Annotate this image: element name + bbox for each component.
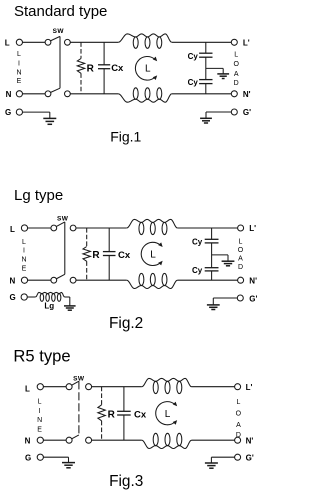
terminal G: [5, 108, 23, 117]
wire G' to ground: [206, 111, 231, 113]
svg-text:L: L: [25, 385, 30, 394]
svg-text:R: R: [87, 63, 95, 74]
wire SW to choke (N line, fig3): [92, 439, 142, 441]
svg-text:N': N': [246, 436, 254, 445]
wire Lg to ground (fig2): [64, 296, 69, 298]
wire choke to L' (fig3): [192, 386, 235, 388]
ground (G', fig2): [207, 298, 220, 310]
wire choke to L' (fig2): [177, 227, 237, 229]
svg-text:I: I: [39, 408, 41, 415]
svg-text:Cy: Cy: [188, 52, 199, 61]
wire G' to ground (fig2): [213, 297, 237, 299]
terminal L (fig3): [25, 384, 43, 394]
inductor Lg (fig2): [36, 292, 65, 310]
ground (G): [43, 112, 56, 124]
svg-text:Cx: Cx: [134, 409, 147, 420]
wire G to Lg (fig2): [27, 296, 35, 298]
svg-text:E: E: [17, 78, 22, 85]
svg-text:L': L': [249, 224, 256, 233]
choke L top winding (fig2): [127, 219, 178, 234]
capacitor Cy upper (fig2): [192, 228, 219, 268]
svg-text:D: D: [238, 264, 243, 271]
svg-text:N: N: [37, 417, 42, 424]
svg-text:L: L: [38, 399, 42, 406]
terminal L' (fig2): [238, 224, 257, 233]
svg-text:N: N: [21, 257, 26, 264]
resistor R (fig2): [83, 228, 100, 280]
svg-text:N': N': [249, 276, 257, 285]
net label LOAD: [233, 51, 239, 87]
svg-text:Cx: Cx: [118, 250, 131, 261]
svg-text:Cy: Cy: [192, 238, 203, 247]
wire choke to N' (fig3): [192, 439, 235, 441]
wire L terminal to SW (fig3): [43, 386, 66, 388]
wire N terminal to SW (fig3): [43, 439, 66, 441]
choke L top winding (fig3): [142, 378, 192, 393]
svg-text:G: G: [10, 293, 16, 302]
capacitor Cy lower: [188, 78, 213, 94]
terminal G': [231, 108, 251, 117]
wire N terminal to SW (fig2): [28, 279, 51, 281]
net label LOAD (fig3): [236, 399, 242, 439]
svg-text:Fig.2: Fig.2: [109, 315, 143, 332]
svg-text:L: L: [10, 225, 15, 234]
svg-text:D: D: [234, 80, 239, 87]
title: Lg type: [14, 187, 63, 204]
svg-text:O: O: [238, 247, 244, 254]
wire SW to choke (N line, fig2): [76, 279, 127, 281]
ground (G, fig2): [64, 297, 76, 310]
svg-text:O: O: [233, 61, 239, 68]
svg-text:N: N: [25, 437, 31, 446]
svg-text:G: G: [5, 108, 11, 117]
ground (G, fig3): [62, 457, 75, 468]
resistor R: [77, 42, 94, 94]
svg-text:Fig.3: Fig.3: [109, 473, 143, 490]
svg-text:L: L: [150, 250, 156, 261]
svg-text:Lg: Lg: [44, 302, 54, 311]
svg-text:L: L: [145, 63, 151, 74]
capacitor Cx (fig3): [117, 387, 147, 441]
ground (G'): [200, 112, 212, 123]
wire SW to choke (L line, fig3): [92, 386, 142, 388]
net label LINE: [16, 51, 21, 85]
net label LOAD (fig2): [238, 239, 244, 271]
wire SW to choke (N line): [70, 93, 118, 95]
wire G to ground: [23, 111, 50, 113]
choke flux arrow L (fig3): [156, 402, 177, 425]
svg-text:N: N: [10, 277, 16, 286]
choke L bottom winding: [118, 88, 172, 102]
terminal N' (fig2): [238, 276, 257, 285]
terminal G (fig3): [25, 454, 43, 463]
svg-text:E: E: [22, 266, 27, 273]
terminal N: [6, 90, 23, 99]
svg-text:G': G': [246, 454, 254, 463]
title: Standard type: [14, 3, 107, 20]
svg-text:N': N': [243, 90, 251, 99]
wire choke to N' (fig2): [177, 279, 237, 281]
resistor R (fig3): [98, 387, 116, 441]
svg-text:Lg type: Lg type: [14, 187, 63, 204]
wire choke to N': [172, 93, 232, 95]
terminal G (fig2): [10, 293, 28, 302]
wire SW to choke (L line, fig2): [76, 227, 127, 229]
svg-text:G: G: [25, 454, 31, 463]
svg-text:I: I: [23, 248, 25, 255]
choke L top winding: [118, 34, 172, 48]
svg-text:SW: SW: [53, 28, 65, 35]
wire Cy midpoint to ground (fig2): [212, 254, 228, 256]
svg-text:R: R: [92, 250, 100, 261]
wire G to ground (fig3): [43, 456, 68, 458]
svg-text:L: L: [234, 51, 238, 58]
svg-text:R5 type: R5 type: [13, 347, 70, 366]
svg-text:R: R: [108, 410, 116, 421]
svg-text:L: L: [165, 409, 171, 420]
capacitor Cx: [98, 42, 124, 94]
choke flux arrow L (fig2): [141, 242, 162, 265]
switch SW (fig2): [51, 216, 76, 283]
svg-text:E: E: [37, 426, 42, 433]
wire Cy midpoint to ground: [206, 67, 223, 69]
svg-text:O: O: [236, 411, 242, 418]
svg-text:N: N: [6, 90, 12, 99]
capacitor Cy lower (fig2): [192, 266, 219, 280]
choke flux arrow L: [135, 57, 157, 81]
terminal N (fig3): [25, 437, 44, 446]
wire G' to ground (fig3): [211, 456, 234, 458]
terminal L' (fig3): [235, 383, 253, 392]
svg-text:L: L: [239, 239, 243, 246]
wire SW to choke (L line): [70, 41, 118, 43]
ground (Cy midpoint, fig2): [222, 255, 235, 266]
svg-text:I: I: [18, 61, 20, 68]
wire choke to L': [172, 41, 232, 43]
capacitor Cx (fig2): [103, 228, 131, 280]
switch SW (fig3): [66, 376, 92, 444]
svg-text:G': G': [243, 108, 251, 117]
terminal L: [5, 38, 23, 47]
capacitor Cy upper: [188, 42, 213, 79]
choke L bottom winding (fig2): [127, 273, 178, 288]
svg-text:A: A: [234, 71, 239, 78]
switch SW: [45, 28, 70, 97]
wire L terminal to SW (fig2): [28, 227, 51, 229]
caption Fig.3: [109, 473, 143, 490]
title: R5 type: [13, 347, 70, 366]
svg-text:A: A: [238, 255, 243, 262]
terminal N': [231, 90, 250, 99]
wire N terminal to SW: [23, 93, 46, 95]
net label LINE (fig3): [37, 399, 42, 434]
svg-text:Standard type: Standard type: [14, 3, 107, 20]
ground (Cy midpoint): [217, 68, 229, 78]
svg-text:L': L': [243, 38, 250, 47]
svg-text:Cy: Cy: [192, 266, 203, 275]
svg-text:Fig.1: Fig.1: [110, 128, 141, 144]
terminal L (fig2): [10, 225, 28, 234]
terminal N' (fig3): [235, 436, 254, 445]
svg-text:L: L: [22, 239, 26, 246]
caption Fig.2: [109, 315, 143, 332]
svg-text:L: L: [236, 399, 240, 406]
terminal G' (fig3): [235, 454, 254, 463]
svg-text:G': G': [249, 294, 257, 303]
wire L terminal to SW: [23, 41, 46, 43]
ground (G', fig3): [205, 457, 218, 468]
net label LINE (fig2): [21, 239, 26, 272]
svg-text:L: L: [17, 51, 21, 58]
svg-text:Cy: Cy: [188, 78, 199, 87]
svg-text:L: L: [5, 38, 10, 47]
terminal L': [231, 38, 249, 47]
svg-text:A: A: [236, 422, 241, 429]
choke L bottom winding (fig3): [142, 433, 192, 448]
svg-text:SW: SW: [73, 376, 85, 383]
svg-text:SW: SW: [57, 216, 69, 223]
svg-text:N: N: [16, 69, 21, 76]
svg-text:Cx: Cx: [111, 63, 124, 74]
svg-text:L': L': [246, 383, 253, 392]
terminal N (fig2): [10, 277, 28, 286]
caption Fig.1: [110, 128, 141, 144]
terminal G' (fig2): [237, 294, 257, 303]
